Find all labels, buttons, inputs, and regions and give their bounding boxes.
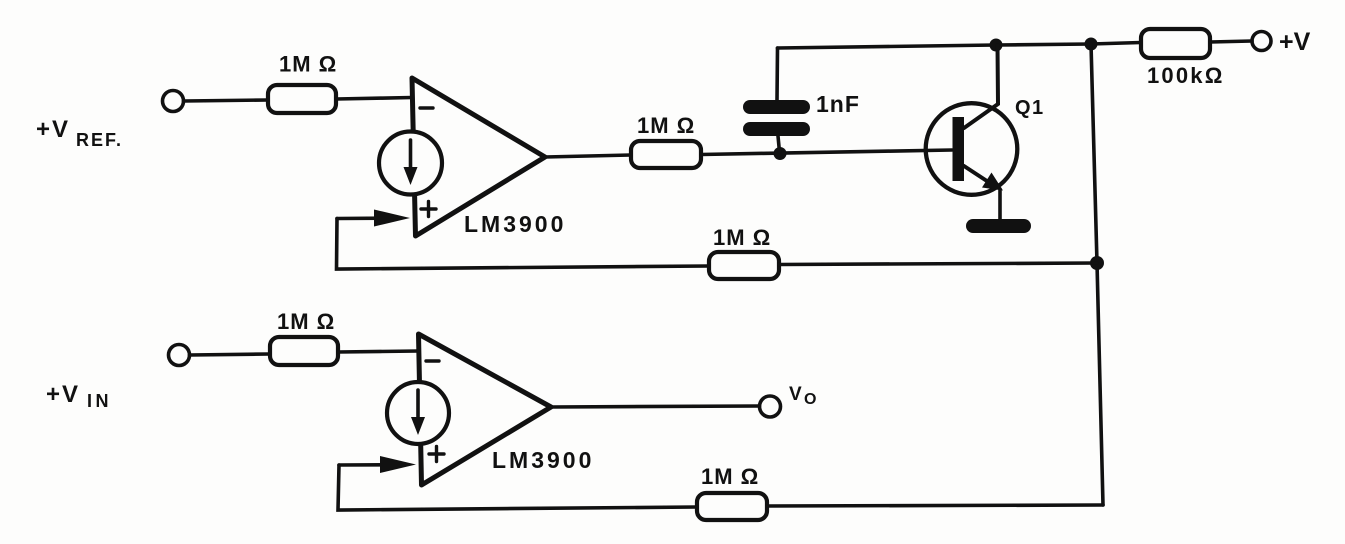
svg-text:1nF: 1nF bbox=[816, 91, 860, 117]
svg-text:1M Ω: 1M Ω bbox=[701, 464, 759, 489]
U1 current source arrow bbox=[404, 140, 418, 185]
svg-text:LM3900: LM3900 bbox=[464, 211, 566, 237]
capacitor C 1nF top plate bbox=[743, 100, 810, 114]
svg-text:1M Ω: 1M Ω bbox=[277, 309, 335, 334]
wire R4 to U2 inverting input bbox=[338, 351, 419, 352]
svg-text:V: V bbox=[789, 384, 802, 405]
capacitor C 1nF bottom plate bbox=[743, 122, 810, 136]
wire U2 output to Vo terminal bbox=[551, 406, 760, 407]
U1 current source circle bbox=[379, 132, 442, 195]
wire capacitor top plate to +V rail bbox=[775, 48, 779, 100]
+V terminal bbox=[1252, 32, 1271, 51]
node collector junction on +V rail bbox=[990, 39, 1003, 52]
node right-branch junction on +V rail bbox=[1085, 38, 1098, 51]
label +VIN bbox=[46, 381, 112, 411]
transistor Q1 emitter arrowhead bbox=[982, 173, 1003, 191]
wire U1 feedback left segment bbox=[337, 219, 710, 270]
svg-text:LM3900: LM3900 bbox=[492, 447, 594, 473]
op-amp U2 LM3900 triangle bbox=[419, 334, 552, 485]
transistor Q1 base bar bbox=[953, 117, 965, 181]
svg-text:+V: +V bbox=[46, 381, 80, 408]
resistor R6 1M feedback bbox=[697, 493, 767, 520]
output terminal Vo bbox=[760, 396, 781, 417]
wire R5 to +V terminal bbox=[1210, 41, 1252, 42]
wire capacitor bottom plate to node bbox=[778, 136, 780, 152]
U2 current source circle bbox=[387, 382, 449, 444]
resistor R3 1M feedback bbox=[709, 252, 779, 279]
wire R6 to right bus bbox=[767, 505, 1103, 506]
input terminal (VIN) bbox=[169, 345, 190, 366]
wire R3 to bus junction bbox=[779, 263, 1097, 265]
svg-text:IN: IN bbox=[87, 391, 112, 411]
U1 noninverting feedback arrow bbox=[337, 210, 410, 227]
transistor Q1 body circle bbox=[926, 103, 1018, 195]
U1 plus sign bbox=[421, 202, 436, 217]
U2 current source arrow bbox=[411, 390, 425, 435]
svg-text:REF.: REF. bbox=[76, 130, 123, 150]
label V0 bbox=[789, 384, 816, 408]
node feedback junction on bus bbox=[1090, 256, 1104, 270]
svg-text:1M Ω: 1M Ω bbox=[279, 52, 337, 77]
op-amp U1 LM3900 triangle bbox=[412, 78, 545, 236]
input terminal (VREF) bbox=[163, 91, 184, 112]
wire terminal to R4 bbox=[190, 354, 271, 355]
wire U1 output to R2 bbox=[545, 155, 631, 157]
U1 minus sign bbox=[420, 106, 433, 109]
svg-text:1M Ω: 1M Ω bbox=[713, 225, 771, 250]
wire R2 to Q1 base bbox=[701, 150, 952, 155]
svg-text:100kΩ: 100kΩ bbox=[1147, 63, 1225, 88]
wire U2 feedback left segment bbox=[338, 465, 697, 510]
svg-text:Q1: Q1 bbox=[1015, 97, 1045, 119]
top +V rail wire bbox=[778, 43, 1142, 49]
wire emitter to ground bar bbox=[998, 189, 1002, 221]
right vertical bus wire bbox=[1091, 44, 1103, 505]
svg-text:+V: +V bbox=[1279, 28, 1311, 56]
U2 plus sign bbox=[429, 447, 444, 462]
ground bar of Q1 emitter bbox=[966, 219, 1031, 233]
U2 noninverting feedback arrow bbox=[339, 456, 416, 473]
svg-text:1M Ω: 1M Ω bbox=[637, 113, 695, 138]
label +VREF. bbox=[36, 116, 123, 150]
resistor R1 1M bbox=[268, 85, 336, 113]
svg-text:+V: +V bbox=[36, 116, 70, 143]
transistor Q1 collector lead bbox=[964, 45, 998, 128]
resistor R5 100k bbox=[1141, 29, 1210, 58]
node junction below capacitor bbox=[774, 147, 787, 160]
U2 minus sign bbox=[426, 359, 439, 362]
transistor Q1 emitter lead bbox=[964, 166, 993, 185]
wire terminal to R1 bbox=[184, 100, 269, 101]
resistor R4 1M bbox=[270, 337, 338, 365]
resistor R2 1M bbox=[631, 141, 701, 168]
svg-text:O: O bbox=[804, 391, 816, 408]
wire R1 to op-amp inverting input bbox=[336, 98, 412, 100]
